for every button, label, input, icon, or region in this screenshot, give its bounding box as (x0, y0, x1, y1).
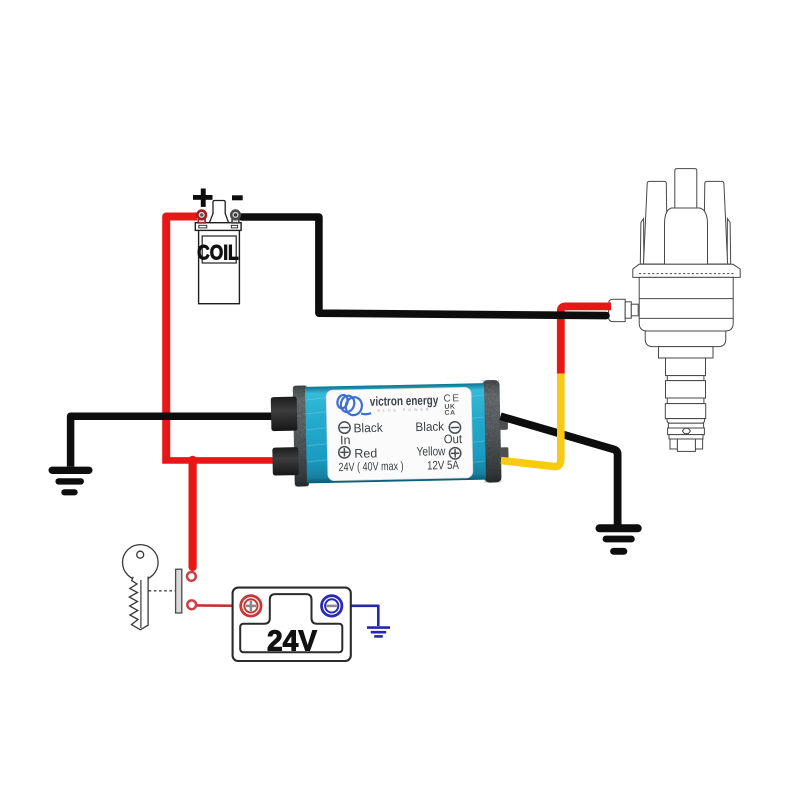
distributor collar hex nut (682, 428, 690, 433)
label - (232, 195, 243, 200)
svg-text:CA: CA (445, 410, 456, 417)
battery outline (233, 588, 351, 661)
coil cap slot left (199, 225, 207, 228)
distributor side connector inner (631, 304, 638, 316)
battery 24V (233, 588, 351, 661)
distributor cap right tower (704, 181, 728, 264)
converter terminal block input positive (red lead) (272, 447, 299, 476)
wire black: converter input negative to ground (71, 416, 277, 466)
distributor shaft mid (666, 381, 706, 398)
key hole (137, 551, 144, 558)
converter white label (326, 387, 473, 481)
distributor body line upper (639, 298, 733, 300)
coil cap plate (195, 223, 241, 231)
wire red: coil + down and across to converter 24V input (166, 217, 197, 464)
distributor side connector mid (625, 302, 631, 318)
wire red: branch down to ignition switch (189, 460, 197, 567)
distributor collar (668, 428, 705, 435)
converter right terminal stub upper (499, 419, 508, 430)
wire black: coil - to distributor points (242, 217, 606, 316)
symbol circle-minus output (449, 422, 461, 434)
coil label frame (202, 236, 236, 263)
coil HT tower (209, 201, 228, 223)
distributor cap left tower (644, 181, 668, 264)
svg-text:COIL: COIL (197, 241, 239, 265)
distributor flange (633, 264, 740, 277)
ignition switch bar (176, 569, 182, 613)
distributor shaft neck (668, 423, 703, 428)
distributor lower flange (669, 435, 703, 439)
key shaft outline (129, 577, 148, 630)
coil L1 body (195, 201, 241, 304)
svg-text:In: In (340, 433, 351, 447)
distributor bottom block (677, 439, 695, 451)
ground left (input negative) (52, 470, 89, 492)
battery inner profile (240, 594, 342, 652)
converter left end cap (293, 385, 309, 486)
converter right terminal stub lower (500, 447, 509, 458)
label + (193, 195, 213, 200)
battery - terminal (322, 596, 342, 616)
distributor body (639, 277, 733, 331)
distributor shaft upper (666, 358, 706, 376)
distributor cap center tower (675, 169, 697, 208)
dashed mechanical link key to switch (149, 590, 175, 592)
converter body brushed highlight (306, 394, 484, 466)
distributor cap dome (665, 208, 708, 264)
wire yellow: converter 12V output up (501, 374, 561, 467)
svg-text:Yellow: Yellow (416, 444, 446, 459)
key shaft fill (129, 574, 148, 630)
svg-text:24V: 24V (267, 626, 318, 658)
converter U1 (Victron Orion 24/12) body (293, 380, 509, 487)
distributor U2 (609, 169, 741, 452)
ground right (output negative) (600, 528, 638, 551)
wire red: across to converter 24V input (162, 457, 276, 464)
ground battery negative (blue) (367, 628, 390, 637)
distributor cap skirt left edge (640, 219, 644, 265)
distributor shaft ring 2 (667, 398, 704, 404)
converter terminal block input negative (black) (271, 397, 298, 432)
wire blue: battery - to ground (342, 606, 379, 626)
svg-text:Black: Black (415, 419, 445, 434)
distributor shaft lower (665, 404, 705, 419)
coil cap slot right (231, 225, 237, 228)
switch contact bottom (187, 600, 196, 609)
wire red: 12V feed to distributor (561, 306, 611, 373)
distributor shaft bottom cap (667, 419, 705, 424)
distributor shaft ring 1 (667, 376, 704, 381)
distributor flange dashed line (639, 273, 734, 275)
distributor cap skirt right edge (727, 219, 731, 265)
svg-text:Out: Out (444, 432, 463, 446)
svg-text:Black: Black (353, 421, 383, 436)
victron logo swirl (336, 393, 371, 417)
coil terminal - eyelet (231, 211, 240, 223)
coil can (199, 230, 240, 303)
svg-text:victron energy: victron energy (370, 392, 439, 408)
wire red thin: switch to battery + (196, 604, 242, 607)
distributor step 3 (659, 347, 714, 358)
battery + terminal (241, 596, 261, 616)
distributor bottom tab left (670, 439, 677, 449)
distributor side connector outer (609, 299, 626, 321)
key shaft inner line (140, 580, 142, 628)
converter right end cap (482, 380, 501, 483)
switch contact top (187, 572, 196, 581)
svg-text:24V ( 40V max ): 24V ( 40V max ) (338, 459, 403, 474)
coil terminal + eyelet (197, 211, 206, 223)
wire black: converter output negative to ground (501, 416, 618, 525)
distributor bottom tab right (695, 439, 702, 449)
symbol circle-minus input (339, 422, 351, 434)
distributor body line lower (639, 317, 733, 319)
key head (123, 545, 159, 581)
svg-text:12V 5A: 12V 5A (427, 458, 459, 473)
converter teal body (305, 383, 486, 483)
key (123, 545, 159, 630)
symbol circle-plus input (339, 446, 351, 458)
symbol circle-plus output (449, 447, 461, 459)
distributor step 2 (645, 331, 726, 347)
